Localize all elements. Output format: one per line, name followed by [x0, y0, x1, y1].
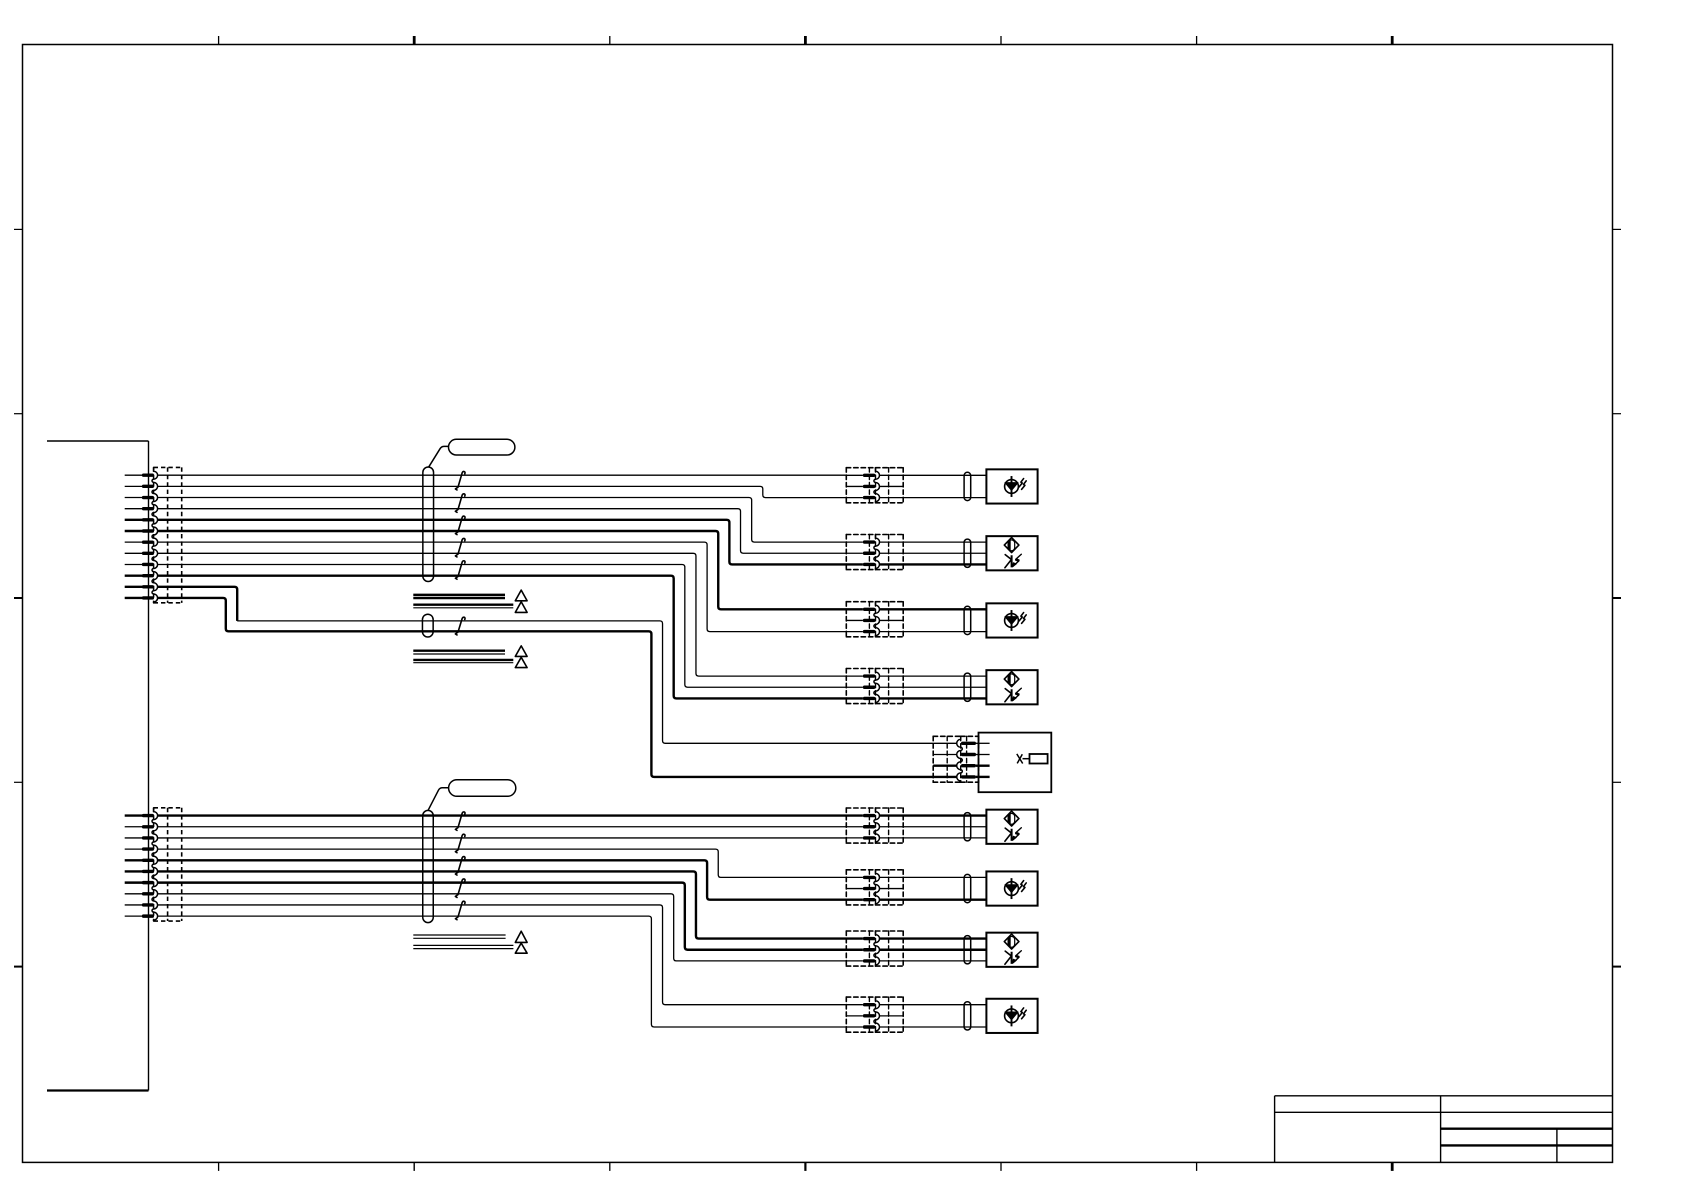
device E2 symbol (sensor): [1004, 538, 1019, 553]
wire w11 (ECU segment): [158, 587, 237, 621]
grommet E9: [964, 1002, 971, 1030]
wire v5 to K7 pin3: [158, 860, 847, 899]
device E8 symbol (sensor): [1004, 934, 1019, 949]
grommet E2: [964, 539, 971, 567]
inline connector K4 (3-pin): [846, 669, 875, 704]
shield lines (lower bundle b): [413, 944, 513, 946]
shield lines (pair w11/w12 upper): [413, 650, 505, 652]
inline connector K8 (3-pin): [846, 931, 875, 966]
shield ground triangle 2: [515, 602, 527, 613]
device E7 box: [986, 871, 1037, 905]
inline connector K1 (3-pin): [846, 468, 875, 503]
wire w10 to K4 pin3: [158, 576, 847, 699]
twisted-pair mark (w11/w12): [455, 617, 465, 635]
wire w9 to K4 pin2: [158, 564, 847, 687]
wire w12 to K5 pin4: [158, 598, 933, 777]
wire v7 to K8 pin2: [158, 883, 847, 950]
K5 pin1 wire to device: [976, 742, 990, 744]
inline connector K9 (3-pin): [846, 997, 875, 1032]
device E9 symbol (LED): [1005, 1009, 1019, 1023]
twisted-pair mark (w3/w4): [455, 494, 465, 512]
device E3 box: [986, 603, 1037, 637]
ECU connector X2 (lower, 10 pins): [154, 807, 182, 809]
wire w11 to K5 pin1: [237, 621, 933, 743]
wire v9 to K9 pin1: [158, 905, 847, 1005]
wire w3 to K2 pin1: [158, 498, 847, 543]
K5 pin2 wire to device: [976, 754, 990, 756]
wire v3 to K6 pin3: [158, 837, 847, 839]
device E9 box: [986, 999, 1037, 1033]
shield lines (lower bundle a): [413, 934, 505, 936]
twisted-pair mark (v5/v6): [455, 857, 465, 875]
device E4 box: [986, 670, 1037, 704]
wire w4 to K2 pin2: [158, 509, 847, 554]
title block: [1275, 1095, 1613, 1097]
twisted-pair mark (w7/w8): [455, 538, 465, 556]
wire v4 to K7 pin1: [158, 849, 847, 877]
device E7 symbol (LED): [1005, 882, 1019, 896]
cable label balloon (upper): [449, 439, 515, 455]
ECU control unit outline: [47, 440, 149, 442]
device M5 symbol (element with spark gap): [1017, 754, 1023, 764]
shield lines (pair 2 area): [413, 604, 513, 606]
device E6 box: [986, 810, 1037, 844]
wire v1 to K6 pin1: [158, 814, 847, 816]
wire v6 to K8 pin1: [158, 871, 847, 938]
twisted-pair mark (w1/w2): [455, 471, 465, 489]
cable label balloon (lower): [449, 780, 516, 797]
inline connector K7 (3-pin): [846, 870, 875, 905]
cable sheath symbol (pair w11/w12): [422, 614, 433, 637]
inline connector K2 (3-pin): [846, 535, 875, 570]
grommet E1: [964, 472, 971, 500]
shield ground triangle 5: [515, 931, 527, 942]
grommet E6: [964, 813, 971, 841]
wire w7 to K3 pin3: [158, 542, 847, 631]
cable sheath symbol (upper bundle): [423, 467, 434, 582]
shield lines (pair 1 area): [413, 594, 505, 596]
wire w8 to K4 pin1: [158, 553, 847, 676]
twisted-pair mark (w9/w10): [455, 561, 465, 579]
shield ground triangle 1: [515, 590, 527, 601]
inline connector K5 (4-pin, mirrored): [933, 736, 961, 782]
twisted-pair mark (v7/v8): [455, 879, 465, 897]
wire v2 to K6 pin2: [158, 826, 847, 828]
K5 pin3 wire to device: [976, 765, 990, 767]
shield ground triangle 6: [515, 943, 527, 953]
grommet E8: [964, 936, 971, 964]
grommet E7: [964, 874, 971, 902]
frame zone tick marks: [218, 36, 220, 45]
grommet E4: [964, 673, 971, 701]
wire w6 to K3 pin1: [158, 531, 847, 609]
device E1 symbol (LED): [1005, 480, 1019, 494]
wire w2 to K1 pin3: [158, 486, 847, 497]
wire v10 to K9 pin3: [158, 916, 847, 1027]
twisted-pair mark (w5/w6): [455, 516, 465, 534]
device E3 symbol (LED): [1005, 614, 1019, 628]
device E4 symbol (sensor): [1004, 672, 1019, 687]
inline connector K6 (3-pin): [846, 808, 875, 843]
shield ground triangle 3: [515, 646, 527, 657]
grommet E3: [964, 606, 971, 634]
cable sheath symbol (lower bundle): [423, 810, 434, 922]
device E2 box: [986, 536, 1037, 570]
twisted-pair mark (v9/v10): [455, 901, 465, 919]
shield lines (pair w11/w12 lower): [413, 659, 513, 661]
device E1 box: [986, 469, 1037, 503]
twisted-pair mark (v3/v4): [455, 834, 465, 852]
device E8 box: [986, 933, 1037, 967]
wire w1 to K1 pin1: [158, 474, 847, 476]
shield ground triangle 4: [515, 657, 527, 667]
device M5 box (4-pin actuator): [979, 733, 1052, 793]
wire v8 to K8 pin3: [158, 894, 847, 961]
inline connector K3 (3-pin): [846, 602, 875, 637]
wire w5 to K2 pin3: [158, 520, 847, 565]
twisted-pair mark (v1/v2): [455, 812, 465, 830]
device E6 symbol (sensor): [1004, 811, 1019, 826]
K5 pin4 wire to device: [976, 776, 990, 778]
ECU connector X1 (upper, 12 pins): [154, 466, 182, 468]
